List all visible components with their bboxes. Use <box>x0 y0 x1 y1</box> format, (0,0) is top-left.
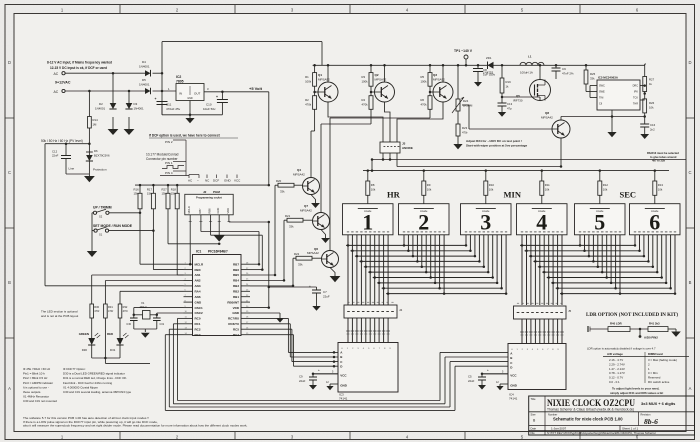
svg-text:RED: RED <box>107 332 113 336</box>
svg-text:R27: R27 <box>649 78 655 82</box>
svg-text:100uH 1A: 100uH 1A <box>520 71 533 75</box>
svg-text:to give tubes around: to give tubes around <box>650 155 677 159</box>
svg-text:R5: R5 <box>421 75 425 79</box>
svg-text:IPK: IPK <box>634 91 638 94</box>
svg-text:10k: 10k <box>427 188 432 192</box>
svg-text:GND: GND <box>510 384 518 388</box>
svg-text:D30: D30 <box>82 348 88 352</box>
svg-text:Fast blink - DCF bad for 24hrs: Fast blink - DCF bad for 24hrs running <box>63 381 113 385</box>
svg-text:470uF 25v: 470uF 25v <box>166 107 181 111</box>
svg-text:3: 3 <box>480 209 491 234</box>
svg-text:+: + <box>318 368 320 372</box>
svg-text:RC1: RC1 <box>195 322 201 326</box>
svg-text:DIMM level: DIMM level <box>648 352 663 356</box>
svg-text:RB3: RB3 <box>233 284 239 288</box>
svg-text:RB1: RB1 <box>233 295 239 299</box>
svg-text:D2: D2 <box>99 102 103 106</box>
svg-text:RC7/RX: RC7/RX <box>228 317 239 321</box>
svg-text:R26: R26 <box>649 101 655 105</box>
svg-text:2: 2 <box>418 209 429 234</box>
svg-text:470k: 470k <box>421 103 428 107</box>
svg-text:Pin2 = Blink 0.5 Hz: Pin2 = Blink 0.5 Hz <box>23 376 48 380</box>
svg-text:IC2: IC2 <box>176 75 181 79</box>
svg-text:VCC: VCC <box>340 374 347 378</box>
svg-text:7805: 7805 <box>176 80 184 84</box>
svg-text:A/D voltage: A/D voltage <box>607 352 623 356</box>
svg-text:R8-R13 must be selected: R8-R13 must be selected <box>647 151 679 155</box>
svg-text:HR: HR <box>387 190 401 200</box>
svg-text:RB2: RB2 <box>233 290 239 294</box>
svg-text:8-12 V AC input, if Mains freq: 8-12 V AC input, if Mains frequency want… <box>47 60 112 64</box>
svg-text:74141: 74141 <box>339 397 348 401</box>
svg-text:If DCF option is used, we have: If DCF option is used, we have here to c… <box>149 134 221 138</box>
svg-text:22uF: 22uF <box>468 379 475 383</box>
svg-text:SEC: SEC <box>620 190 637 200</box>
svg-text:R13: R13 <box>658 183 664 187</box>
svg-text:DCF: DCF <box>213 179 219 183</box>
svg-text:100k: 100k <box>362 80 369 84</box>
svg-text:2.29 - 2.74V: 2.29 - 2.74V <box>609 362 625 366</box>
svg-text:GND: GND <box>216 208 220 214</box>
svg-text:RC2: RC2 <box>195 327 201 331</box>
svg-text:12-15 V DC input is ok, if DCF: 12-15 V DC input is ok, if DCF or used <box>50 66 107 70</box>
svg-text:CII: CII <box>599 103 603 106</box>
svg-text:+: + <box>216 95 218 99</box>
svg-text:MPSA92: MPSA92 <box>433 78 445 82</box>
svg-text:470k: 470k <box>362 103 369 107</box>
svg-text:AC: AC <box>54 72 59 76</box>
svg-text:IC1: IC1 <box>196 249 201 253</box>
svg-text:2.16 - 4.7V: 2.16 - 4.7V <box>609 358 623 362</box>
svg-text:1uF 350v: 1uF 350v <box>483 73 496 77</box>
svg-text:simply adjust R41 and R26 valu: simply adjust R41 and R26 values a bit <box>610 391 663 395</box>
svg-text:C: C <box>688 170 691 175</box>
svg-text:10,177 Module/Conrad: 10,177 Module/Conrad <box>146 153 179 157</box>
svg-text:LDR OPTION (NOT INCLUDED IN KI: LDR OPTION (NOT INCLUDED IN KIT) <box>586 313 678 318</box>
svg-text:IF DCF77 Option:: IF DCF77 Option: <box>63 367 86 371</box>
svg-text:Revision: Revision <box>641 413 652 417</box>
svg-text:RB4: RB4 <box>233 279 239 283</box>
svg-text:Size: Size <box>531 413 537 417</box>
svg-text:22nF: 22nF <box>52 154 59 158</box>
svg-text:R32: R32 <box>123 305 128 309</box>
svg-text:Line: Line <box>69 167 75 171</box>
svg-text:GND: GND <box>187 97 193 100</box>
svg-text:3x3 MUX + 6 digits: 3x3 MUX + 6 digits <box>641 401 675 406</box>
svg-text:J2: J2 <box>203 190 207 194</box>
svg-text:15k: 15k <box>147 192 152 196</box>
svg-text:10k: 10k <box>545 188 550 192</box>
svg-text:MCLR: MCLR <box>195 262 204 266</box>
svg-text:AN3: AN3 <box>195 284 201 288</box>
svg-text:1N4001: 1N4001 <box>139 83 150 87</box>
svg-text:Pin3 = AM/PM indicator: Pin3 = AM/PM indicator <box>23 381 53 385</box>
svg-text:RC5: RC5 <box>233 327 239 331</box>
svg-text:VCC: VCC <box>234 179 241 183</box>
svg-text:R8: R8 <box>371 183 375 187</box>
svg-text:100k: 100k <box>305 80 312 84</box>
svg-text:X1 4MHz Resonator: X1 4MHz Resonator <box>23 395 49 399</box>
svg-text:S:\TXT DEV MXXX\gzh10Kdd-pwtec: S:\TXT DEV MXXX\gzh10Kdd-pwtechurg\NNixi… <box>547 431 656 435</box>
svg-text:GREEN: GREEN <box>79 332 89 336</box>
svg-text:0.78 - 1.17V: 0.78 - 1.17V <box>609 371 625 375</box>
svg-text:RB7: RB7 <box>233 262 239 266</box>
svg-text:470r: 470r <box>94 309 99 313</box>
svg-text:470k: 470k <box>305 103 312 107</box>
svg-text:1-Jan-2007: 1-Jan-2007 <box>551 427 567 431</box>
svg-text:Q7: Q7 <box>304 204 308 208</box>
svg-text:R25: R25 <box>590 72 596 76</box>
svg-text:OUT: OUT <box>194 92 201 96</box>
svg-text:B: B <box>8 280 11 285</box>
svg-text:The LED section is optional: The LED section is optional <box>41 310 78 314</box>
svg-text:TP1 ~140 V: TP1 ~140 V <box>454 49 473 53</box>
svg-text:J4: J4 <box>399 308 403 312</box>
svg-text:2n2: 2n2 <box>650 128 655 132</box>
svg-text:R19: R19 <box>506 80 512 84</box>
svg-text:MPSA42: MPSA42 <box>541 116 553 120</box>
svg-text:50k / 50 Hz / 60 Hz (PV level): 50k / 50 Hz / 60 Hz (PV level) <box>41 139 83 143</box>
svg-text:+5 Volt: +5 Volt <box>249 86 263 91</box>
svg-text:4k7 to 22k: 4k7 to 22k <box>652 159 666 163</box>
svg-text:100k: 100k <box>421 80 428 84</box>
svg-text:1M: 1M <box>93 123 98 127</box>
svg-text:AC: AC <box>54 90 59 94</box>
svg-text:33k: 33k <box>280 190 285 194</box>
svg-text:47nF 2%: 47nF 2% <box>562 72 574 76</box>
svg-text:BZX79C5V6: BZX79C5V6 <box>94 154 110 158</box>
svg-text:10k: 10k <box>658 188 663 192</box>
svg-text:C8: C8 <box>483 68 487 72</box>
svg-text:TCK: TCK <box>633 97 638 100</box>
svg-text:33k: 33k <box>289 225 294 229</box>
svg-text:Date: Date <box>531 427 537 431</box>
svg-text:A: A <box>8 386 11 391</box>
svg-text:R3: R3 <box>362 75 366 79</box>
svg-text:470r: 470r <box>462 131 468 135</box>
svg-text:MPSA92: MPSA92 <box>375 78 387 82</box>
svg-text:3 = Max (fading mode): 3 = Max (fading mode) <box>648 358 677 362</box>
svg-text:C30 and C31 several loading, a: C30 and C31 several loading, antenna 36P… <box>63 390 132 394</box>
svg-text:R40 LDR: R40 LDR <box>610 322 622 326</box>
svg-text:Q8: Q8 <box>545 111 549 115</box>
svg-text:Schematic for nixie clock PCB: Schematic for nixie clock PCB 1.00 <box>553 417 623 422</box>
svg-text:J3: J3 <box>402 142 406 146</box>
svg-text:Adjust R24 for ~140V DC on tes: Adjust R24 for ~140V DC on test point ! <box>466 139 522 143</box>
svg-text:10k: 10k <box>371 188 376 192</box>
svg-text:ZD1: ZD1 <box>486 56 492 60</box>
svg-text:470r: 470r <box>123 309 128 313</box>
svg-text:LDR option is automaticly disa: LDR option is automaticly disabled if vo… <box>587 347 656 351</box>
svg-text:R23: R23 <box>462 126 468 130</box>
svg-text:IF 25k / 50Hz / 60 Hz: IF 25k / 50Hz / 60 Hz <box>23 367 51 371</box>
svg-text:4: 4 <box>536 209 547 234</box>
svg-text:D31: D31 <box>110 348 116 352</box>
svg-text:RB5: RB5 <box>233 273 239 277</box>
svg-text:RA4: RA4 <box>195 290 201 294</box>
svg-text:470r: 470r <box>108 309 113 313</box>
svg-text:GND: GND <box>195 300 203 304</box>
svg-text:PIN 4: PIN 4 <box>165 171 173 175</box>
svg-text:C10: C10 <box>206 103 212 107</box>
svg-text:Thomas Scherrer & Claus Urbac: Thomas Scherrer & Claus Urbach (webx.dk … <box>547 408 634 412</box>
svg-text:R21: R21 <box>285 214 291 218</box>
svg-text:R10: R10 <box>489 183 495 187</box>
svg-text:C16: C16 <box>650 123 656 127</box>
svg-text:RC switch active: RC switch active <box>648 380 670 384</box>
svg-text:R14: R14 <box>93 118 99 122</box>
svg-text:D4: D4 <box>142 60 146 64</box>
svg-text:1N4001: 1N4001 <box>95 107 106 111</box>
svg-text:IC5 MC34063A: IC5 MC34063A <box>598 76 619 80</box>
svg-text:10k: 10k <box>649 106 654 110</box>
svg-text:these outputs.: these outputs. <box>23 390 41 394</box>
svg-text:X1 4.000000 Crystal Mppm: X1 4.000000 Crystal Mppm <box>63 385 99 389</box>
svg-text:74141: 74141 <box>509 397 518 401</box>
svg-text:Q4: Q4 <box>297 168 301 172</box>
svg-text:R9: R9 <box>427 183 431 187</box>
svg-text:D30 is a Dual LED GREEN/RED si: D30 is a Dual LED GREEN/RED signal indic… <box>63 372 125 376</box>
svg-text:RC4: RC4 <box>233 333 239 337</box>
svg-text:+: + <box>487 368 489 372</box>
svg-text:Connector pin number: Connector pin number <box>146 157 178 161</box>
svg-text:0 = Min: 0 = Min <box>648 371 658 375</box>
svg-text:Programming socket: Programming socket <box>196 195 222 199</box>
svg-text:MPSA42: MPSA42 <box>307 251 319 255</box>
svg-text:10k: 10k <box>489 188 494 192</box>
svg-text:PGM: PGM <box>213 190 220 194</box>
svg-text:AN6: AN6 <box>195 295 201 299</box>
svg-text:Pin1 = Blink 10 h: Pin1 = Blink 10 h <box>23 372 45 376</box>
svg-text:R6: R6 <box>421 98 425 102</box>
svg-text:SET MODE / RUN MODE: SET MODE / RUN MODE <box>93 224 133 228</box>
svg-text:L1: L1 <box>528 55 532 59</box>
svg-text:D5: D5 <box>142 78 146 82</box>
svg-text:RB6: RB6 <box>208 208 212 214</box>
svg-text:9+12VAC: 9+12VAC <box>55 81 71 85</box>
svg-text:RC6/TX: RC6/TX <box>228 322 239 326</box>
svg-text:15k: 15k <box>162 192 167 196</box>
svg-text:PIC16F84B?: PIC16F84B? <box>208 249 228 253</box>
svg-text:GND: GND <box>340 384 348 388</box>
svg-text:GND: GND <box>232 311 240 315</box>
svg-text:10k: 10k <box>603 188 608 192</box>
svg-text:22uF: 22uF <box>323 294 330 298</box>
svg-text:also it will measure the super: also it will measure the superclock freq… <box>23 424 247 428</box>
svg-text:33k: 33k <box>298 263 303 267</box>
svg-text:PIN 1: PIN 1 <box>165 161 173 165</box>
svg-text:5: 5 <box>594 209 605 234</box>
svg-text:RB0: RB0 <box>195 268 201 272</box>
svg-text:MIN: MIN <box>504 190 522 200</box>
svg-text:D31 is a normal RED led, Charg: D31 is a normal RED led, Charge Imss - D… <box>63 376 127 380</box>
svg-text:1N4001: 1N4001 <box>139 65 150 69</box>
svg-text:15k: 15k <box>134 192 139 196</box>
svg-text:B: B <box>689 280 692 285</box>
svg-text:RC0: RC0 <box>195 317 201 321</box>
svg-text:VDD: VDD <box>226 208 230 214</box>
svg-text:Protection: Protection <box>93 168 107 172</box>
svg-text:SWC: SWC <box>599 85 605 88</box>
svg-text:RB0/INT: RB0/INT <box>227 300 239 304</box>
svg-text:C31: C31 <box>160 323 165 326</box>
svg-text:MPSA42: MPSA42 <box>293 173 305 177</box>
svg-text:R4: R4 <box>362 98 366 102</box>
svg-text:D: D <box>688 60 691 65</box>
svg-text:and is not at the PCB layout: and is not at the PCB layout <box>41 314 78 318</box>
svg-text:It is optional to use -: It is optional to use - <box>23 385 49 389</box>
svg-text:22uF: 22uF <box>299 379 306 383</box>
svg-text:R41 3k3: R41 3k3 <box>649 322 660 326</box>
svg-text:UP / TRIMM: UP / TRIMM <box>93 206 112 210</box>
svg-text:MPSA92: MPSA92 <box>318 78 330 82</box>
svg-text:C30 and C31 not mounted: C30 and C31 not mounted <box>23 399 57 403</box>
svg-text:MPSA42: MPSA42 <box>300 209 312 213</box>
svg-text:MCLR: MCLR <box>187 206 191 213</box>
svg-text:VDD: VDD <box>233 306 240 310</box>
svg-text:0.0 - 0.1: 0.0 - 0.1 <box>609 380 620 384</box>
svg-text:15k: 15k <box>171 192 176 196</box>
svg-text:D: D <box>8 60 11 65</box>
svg-text:33k: 33k <box>590 77 595 81</box>
svg-text:D6: D6 <box>94 149 98 153</box>
svg-text:R30: R30 <box>94 305 99 309</box>
svg-text:10uF 50v: 10uF 50v <box>203 107 216 111</box>
svg-text:47p: 47p <box>507 107 512 111</box>
svg-text:1: 1 <box>362 209 373 234</box>
svg-text:OSC2: OSC2 <box>195 311 204 315</box>
svg-text:C: C <box>8 170 11 175</box>
svg-text:IN: IN <box>179 92 182 96</box>
svg-text:J5: J5 <box>568 309 572 313</box>
svg-text:C13: C13 <box>507 102 513 106</box>
svg-text:RC3: RC3 <box>195 333 201 337</box>
svg-text:RB7: RB7 <box>198 208 202 214</box>
svg-text:AN1: AN1 <box>195 273 201 277</box>
svg-text:1N4001: 1N4001 <box>134 107 145 111</box>
svg-text:SWE: SWE <box>599 91 605 94</box>
svg-text:AN2: AN2 <box>195 279 201 283</box>
svg-text:DRC: DRC <box>633 85 639 88</box>
svg-text:4MHz: 4MHz <box>140 305 148 309</box>
svg-text:R11: R11 <box>545 183 550 187</box>
svg-text:TIM: TIM <box>599 97 603 100</box>
svg-text:R2: R2 <box>305 98 309 102</box>
svg-text:R20: R20 <box>276 179 282 183</box>
svg-text:~: ~ <box>197 179 199 183</box>
svg-text:S1: S1 <box>99 233 103 237</box>
svg-text:6: 6 <box>649 209 660 234</box>
svg-text:R12: R12 <box>603 183 609 187</box>
svg-text:OSC1: OSC1 <box>195 306 204 310</box>
svg-text:GND: GND <box>224 179 232 183</box>
svg-text:Q3: Q3 <box>433 73 437 77</box>
svg-text:Sheet 1 of 1: Sheet 1 of 1 <box>622 426 639 430</box>
svg-text:R31: R31 <box>108 305 113 309</box>
svg-text:RB6: RB6 <box>233 268 239 272</box>
svg-text:VCC: VCC <box>510 374 517 378</box>
svg-text:Q2: Q2 <box>375 73 379 77</box>
svg-text:1K5RM: 1K5RM <box>463 104 473 108</box>
svg-text:R24: R24 <box>463 99 469 103</box>
svg-text:PIN 2: PIN 2 <box>165 140 173 144</box>
svg-text:R1: R1 <box>305 75 309 79</box>
svg-text:C11: C11 <box>166 103 172 107</box>
svg-text:File: File <box>531 431 536 435</box>
svg-text:ANODE: ANODE <box>402 146 413 150</box>
svg-text:Start with wiper position at 5: Start with wiper position at 5ov percent… <box>466 144 528 148</box>
svg-text:Title: Title <box>531 397 536 401</box>
svg-text:+: + <box>309 285 311 289</box>
svg-text:8b-6: 8b-6 <box>644 417 658 426</box>
svg-text:R22: R22 <box>294 252 300 256</box>
svg-text:1.47 - 2.14V: 1.47 - 2.14V <box>609 367 625 371</box>
svg-text:0.12 - 0.7V: 0.12 - 0.7V <box>609 376 623 380</box>
svg-text:Q1: Q1 <box>318 73 322 77</box>
svg-text:C30: C30 <box>126 323 131 326</box>
svg-text:THR: THR <box>633 103 638 106</box>
svg-text:S2: S2 <box>99 215 103 219</box>
svg-text:IRF730: IRF730 <box>513 99 523 103</box>
svg-text:A/D0 PIN2: A/D0 PIN2 <box>644 336 658 340</box>
svg-text:C9: C9 <box>562 67 566 71</box>
svg-text:Reserved: Reserved <box>648 376 661 380</box>
svg-text:D3: D3 <box>134 102 138 106</box>
svg-text:A: A <box>689 386 692 391</box>
svg-text:+: + <box>155 97 157 101</box>
